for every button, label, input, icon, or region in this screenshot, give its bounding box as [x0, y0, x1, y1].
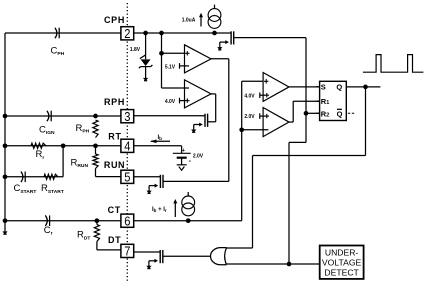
svg-text:UNDER-: UNDER-	[325, 248, 359, 258]
svg-text:Q: Q	[337, 109, 343, 118]
svg-text:Ib: Ib	[158, 135, 163, 141]
svg-text:6: 6	[124, 214, 130, 228]
svg-text:S: S	[321, 83, 326, 92]
svg-text:Ib + Ir: Ib + Ir	[152, 207, 167, 213]
svg-text:4: 4	[124, 139, 130, 153]
svg-text:+: +	[182, 148, 185, 154]
svg-text:2.0V: 2.0V	[244, 114, 255, 120]
svg-text:4.0V: 4.0V	[165, 99, 176, 105]
svg-text:4.0V: 4.0V	[244, 93, 255, 99]
svg-text:RT: RT	[108, 131, 121, 141]
svg-text:RUN: RUN	[104, 160, 125, 170]
svg-text:1.0uA: 1.0uA	[182, 17, 196, 23]
svg-text:2: 2	[124, 27, 130, 41]
svg-text:5.1V: 5.1V	[165, 64, 176, 70]
svg-text:5: 5	[124, 170, 130, 184]
svg-text:CPH: CPH	[104, 15, 125, 25]
svg-text:2.0V: 2.0V	[193, 153, 204, 159]
svg-text:DT: DT	[108, 235, 121, 245]
svg-text:Q: Q	[336, 83, 342, 92]
svg-text:RPH: RPH	[104, 97, 125, 107]
svg-text:VOLTAGE: VOLTAGE	[322, 258, 362, 268]
svg-text:DETECT: DETECT	[324, 268, 359, 278]
svg-text:3: 3	[124, 110, 130, 124]
svg-text:CT: CT	[108, 205, 121, 215]
svg-text:1.8V: 1.8V	[130, 47, 141, 53]
svg-text:7: 7	[124, 245, 130, 259]
